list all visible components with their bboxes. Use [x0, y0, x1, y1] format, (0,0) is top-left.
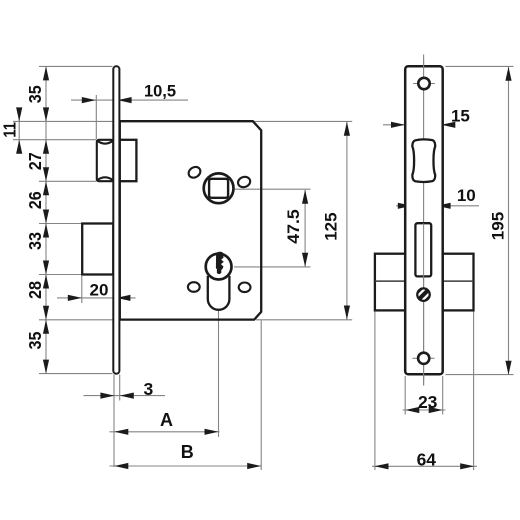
dimension 15 arrows — [391, 122, 405, 128]
svg-text:27: 27 — [25, 152, 45, 170]
wire: deadbolt bottom extension line — [39, 274, 82, 276]
deadbolt side view — [415, 223, 431, 276]
case parting line left — [375, 280, 405, 282]
case side view left half — [375, 254, 405, 311]
dimension 33 arrows — [43, 224, 49, 238]
wire: plate top extension line right — [446, 65, 514, 67]
svg-text:195: 195 — [489, 212, 508, 240]
spindle follower circle — [204, 173, 234, 203]
dimension 11 line — [18, 108, 20, 154]
wire: plate bottom extension line right — [446, 374, 514, 376]
dimension 20 arrows — [68, 295, 82, 301]
svg-text:11: 11 — [0, 122, 19, 138]
top fixing hole — [413, 78, 435, 89]
screw hole right of cylinder — [239, 283, 251, 293]
faceplate front view — [113, 66, 119, 373]
dimension 125 arrows — [344, 122, 350, 136]
wire: latch top extension line — [13, 139, 96, 141]
dimension 195 arrows — [505, 67, 511, 81]
dimension 47.5 line — [304, 190, 306, 267]
wire: case bottom extension line — [39, 319, 113, 321]
svg-text:35: 35 — [25, 85, 45, 103]
dimension chain line left — [45, 66, 47, 373]
dimension 3 arrows — [100, 393, 114, 399]
fixing screw — [413, 284, 434, 305]
svg-text:35: 35 — [25, 331, 45, 349]
screw hole right of spindle — [237, 175, 252, 188]
dimension 26 arrows — [43, 181, 49, 195]
wire: case top extension line — [13, 120, 120, 122]
centreline over plate — [423, 60, 425, 381]
dimension 64 arrows — [375, 463, 389, 469]
screw hole upper left of spindle — [187, 165, 203, 180]
wire: case right edge extension line down — [260, 321, 262, 471]
svg-text:B: B — [181, 442, 194, 462]
centreline through deadbolt — [423, 223, 425, 385]
lock case outline — [120, 121, 261, 319]
wire: deadbolt top extension line — [39, 223, 82, 225]
key silhouette — [216, 252, 224, 274]
dimension 10 arrows — [398, 203, 412, 209]
dimension B line — [110, 465, 262, 467]
wire: cylinder centreline extension down — [218, 311, 220, 437]
bottom fixing hole — [413, 353, 435, 364]
wire: latch edge extension lines side view — [411, 128, 413, 140]
wire: latch tip extension line — [95, 95, 97, 139]
dimension A arrows — [114, 429, 128, 435]
svg-text:64: 64 — [417, 450, 437, 470]
cylinder stem — [208, 276, 230, 310]
cylinder circle — [206, 254, 232, 280]
screw hole left of cylinder — [188, 282, 200, 292]
dimension 15 line — [383, 124, 452, 126]
wire: plate edge extension lines down — [404, 376, 406, 415]
wire: latch bottom extension line — [39, 180, 96, 182]
svg-text:10: 10 — [457, 186, 476, 205]
wire: case bottom right extension line — [256, 319, 352, 321]
faceplate side view — [405, 66, 443, 374]
dimension B arrows — [114, 463, 128, 469]
dimension 23 arrows — [405, 407, 419, 413]
wire: faceplate top extension line — [39, 65, 113, 67]
wire: spindle centre extension line — [235, 188, 311, 190]
deadbolt front view — [82, 224, 113, 275]
dimension 64 line — [372, 465, 477, 467]
svg-text:33: 33 — [25, 232, 45, 250]
wire: deadbolt edge extension line — [81, 276, 83, 303]
wire: cylinder centre extension line — [234, 266, 311, 268]
svg-text:26: 26 — [25, 191, 45, 209]
svg-text:28: 28 — [25, 281, 45, 299]
svg-text:A: A — [160, 410, 173, 430]
wire: faceplate right edge extension line down — [119, 375, 121, 401]
dimension 10,5 line — [71, 99, 188, 101]
dimension 23 line — [403, 409, 446, 411]
dimension 3 line — [84, 395, 166, 397]
dimension 27 arrows — [43, 140, 49, 154]
wire: faceplate bottom extension line — [39, 373, 113, 375]
dimension A line — [110, 431, 220, 433]
svg-text:3: 3 — [144, 379, 154, 399]
latch side view — [412, 140, 435, 182]
svg-text:15: 15 — [451, 107, 470, 126]
dimension 35 bottom arrows — [43, 320, 49, 334]
spindle square hole — [209, 179, 228, 198]
wire: faceplate left edge extension line down — [113, 375, 115, 468]
case parting line right — [443, 280, 474, 282]
dimension 47.5 arrows — [302, 190, 308, 204]
wire: case side extension lines down — [374, 312, 376, 471]
dimension 195 line — [508, 67, 510, 375]
case side view right half — [443, 254, 474, 311]
svg-text:10,5: 10,5 — [144, 82, 176, 100]
dimension 11 arrows — [16, 107, 22, 121]
svg-text:20: 20 — [90, 280, 109, 299]
svg-text:47.5: 47.5 — [285, 209, 303, 244]
latch housing inside case — [120, 140, 137, 181]
centreline side view — [423, 55, 425, 386]
dimension 10,5 arrows — [82, 97, 96, 103]
dimension 20 line — [57, 297, 136, 299]
latch bolt front view — [97, 140, 114, 181]
wire: case top right extension line — [254, 120, 352, 122]
svg-text:125: 125 — [321, 212, 340, 240]
dimension 28 arrows — [43, 275, 49, 289]
dimension 10 line — [396, 205, 479, 207]
svg-text:23: 23 — [418, 392, 438, 412]
dimension 125 line — [346, 122, 348, 320]
dimension 35 top arrows — [43, 66, 49, 80]
